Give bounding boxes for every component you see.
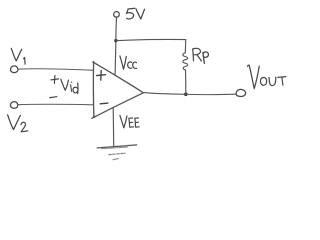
terminal Vout: [236, 89, 246, 96]
terminal 5V: [114, 12, 120, 18]
label V2: [8, 115, 28, 132]
label 5V: [127, 8, 145, 19]
ground: [97, 145, 137, 160]
wire V1 to op-amp noninverting input: [18, 69, 93, 71]
terminal V1: [11, 66, 18, 73]
label V1: [11, 48, 25, 64]
label + (differential input polarity): [51, 76, 59, 84]
wire top supply rail: [116, 40, 186, 41]
junction op-amp bottom-left corner: [93, 116, 95, 118]
label Vid: [61, 79, 78, 94]
label - (differential input polarity): [50, 96, 57, 99]
wire op-amp output to Vout: [143, 93, 236, 95]
label Vcc: [120, 56, 137, 69]
label RP: [193, 48, 209, 63]
wire Vcc pin: [114, 41, 117, 76]
terminal V2: [10, 102, 17, 109]
wire VEE pin to ground: [112, 108, 115, 147]
wire V2 to op-amp inverting input: [18, 103, 94, 106]
resistor RP: [183, 40, 188, 95]
label VEE: [120, 115, 139, 127]
op-amp noninverting pin marker +: [97, 70, 106, 80]
op-amp inverting pin marker -: [100, 102, 108, 105]
op-amp U1: [92, 62, 143, 119]
junction RP/output node: [184, 93, 188, 97]
wire 5V supply drop: [115, 18, 118, 41]
label Vout: [248, 65, 286, 88]
junction Vcc/5V node: [114, 39, 117, 42]
